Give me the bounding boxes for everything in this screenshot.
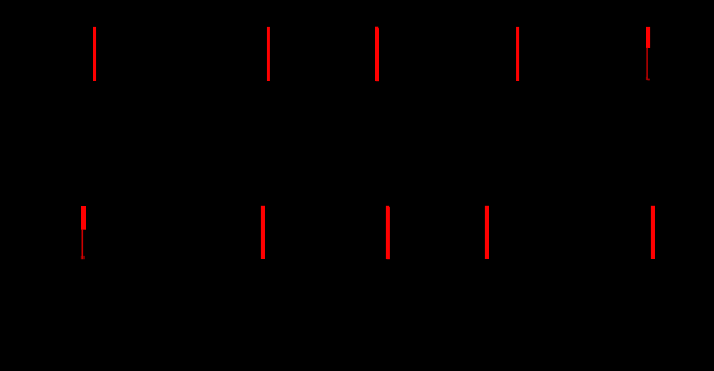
wire bottom rail — [40, 258, 674, 260]
current arrow I1 — [93, 27, 96, 81]
current arrow I8 — [386, 206, 390, 259]
current arrow I3 — [375, 27, 379, 81]
current arrow I6 — [81, 206, 86, 259]
current arrow I7 — [261, 206, 265, 259]
current arrow I5 — [646, 27, 650, 81]
wire top rail — [40, 80, 674, 82]
wire branch leads — [83, 27, 652, 259]
current arrow I4 — [516, 27, 519, 81]
current arrow I10 — [651, 206, 655, 259]
current arrow I2 — [267, 27, 270, 81]
current arrow I9 — [485, 206, 489, 259]
